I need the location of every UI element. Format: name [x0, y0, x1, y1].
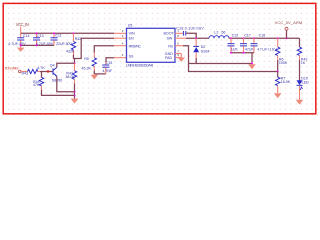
- svg-text:BOOT: BOOT: [164, 31, 175, 35]
- wire R42 to EN: [74, 38, 115, 58]
- capacitor C17: [240, 33, 254, 52]
- ground (output caps / D2): [248, 64, 256, 69]
- wire SS to C15: [106, 58, 114, 62]
- pin stub EN pin 3: [114, 34, 127, 38]
- capacitor C12: [228, 33, 239, 52]
- pin stub SW pin 8: [175, 34, 186, 38]
- resistor R41: [65, 63, 76, 83]
- capacitor C11: [51, 33, 73, 46]
- svg-text:L2: L2: [214, 30, 218, 34]
- ground (bottom left): [71, 99, 79, 104]
- wire RT/SYNC to R5: [94, 46, 114, 53]
- node SW junction: [195, 37, 197, 39]
- junction dots output bus: [230, 37, 287, 39]
- svg-text:C14: C14: [23, 34, 30, 38]
- wire R5 bottom / C15 bottom: [94, 71, 106, 74]
- LED D10: [297, 76, 309, 90]
- transistor Q4: [50, 64, 62, 83]
- resistor R42 (LED series 1K): [297, 38, 307, 65]
- pin stub BOOT pin 1: [175, 29, 183, 33]
- resistor R44 (base pulldown): [33, 72, 44, 90]
- svg-text:16.5K: 16.5K: [281, 80, 291, 84]
- svg-text:POW_ARM: POW_ARM: [5, 67, 19, 71]
- wire R43 to Q4 base: [40, 71, 53, 73]
- node ground bus junction: [251, 63, 253, 65]
- pin stub SS pin 6: [114, 53, 127, 58]
- svg-text:RT/SYNC: RT/SYNC: [129, 44, 142, 48]
- svg-text:SS34: SS34: [201, 50, 210, 54]
- net label VCC_5V_ARM: [275, 20, 303, 25]
- wire input bus VIN: [21, 32, 114, 34]
- resistor R5: [82, 53, 97, 71]
- wire FB to divider: [183, 46, 278, 72]
- svg-text:47UF: 47UF: [245, 48, 255, 52]
- wire R44 to ground junction: [42, 90, 75, 96]
- ground (R7): [274, 93, 282, 98]
- capacitor C13: [33, 33, 54, 46]
- capacitor C16: [251, 33, 278, 52]
- resistor R42 (EN pull-up): [66, 33, 81, 54]
- svg-text:C11: C11: [55, 34, 61, 38]
- wire VCC_IN stem: [20, 27, 22, 34]
- svg-text:PAD: PAD: [165, 56, 173, 60]
- wire R42 to LED: [299, 60, 301, 80]
- svg-text:C16: C16: [259, 33, 266, 37]
- wire LED to ground: [299, 86, 301, 100]
- wire BOOT to SW node: [186, 33, 196, 38]
- node R44 junction: [74, 94, 76, 96]
- port circle VCC_5V_ARM: [285, 27, 288, 30]
- wire Q4 emitter to ground: [57, 76, 75, 91]
- net label POW_ARM: [5, 67, 19, 71]
- capacitor C18 (bootstrap): [176, 27, 204, 36]
- wire VCC_5V_ARM stem: [286, 30, 288, 38]
- junction dots caps ground bus: [230, 52, 244, 54]
- svg-text:47UF/16V: 47UF/16V: [257, 48, 277, 52]
- junction dots input bus: [20, 32, 75, 46]
- svg-text:Q4: Q4: [50, 64, 55, 68]
- svg-text:U5: U5: [128, 24, 133, 28]
- svg-text:VCC_IN: VCC_IN: [16, 22, 29, 27]
- net label VCC_IN: [16, 22, 29, 27]
- svg-text:EN: EN: [129, 36, 134, 40]
- svg-text:C18 0.1UF/16V: C18 0.1UF/16V: [176, 27, 204, 31]
- svg-text:4.7NF: 4.7NF: [102, 69, 113, 73]
- ground (input caps): [17, 45, 25, 51]
- wire middle ground bus: [189, 63, 253, 65]
- resistor R43: [21, 66, 45, 76]
- svg-text:C17: C17: [244, 33, 251, 37]
- svg-text:LED: LED: [302, 80, 309, 84]
- node base junction: [47, 70, 49, 72]
- node FB divider junction: [277, 71, 279, 73]
- wire output caps ground bus: [231, 52, 254, 54]
- svg-text:SS: SS: [129, 54, 134, 58]
- svg-text:38.0K: 38.0K: [65, 75, 75, 79]
- resistor R7 (FB divider bottom): [276, 72, 291, 94]
- wire SW to inductor: [186, 37, 209, 39]
- svg-text:C15: C15: [106, 61, 113, 65]
- svg-text:R43: R43: [22, 72, 29, 76]
- svg-text:56: 56: [221, 30, 225, 34]
- wire input ground bus: [21, 44, 54, 46]
- svg-text:VCC_5V_ARM: VCC_5V_ARM: [275, 20, 303, 25]
- svg-text:SW: SW: [167, 36, 173, 40]
- wire EN node down to R41: [74, 59, 76, 64]
- capacitor C15: [102, 61, 113, 74]
- node EN/R41 junction: [74, 62, 76, 64]
- inductor L2: [209, 30, 229, 38]
- svg-text:47K: 47K: [33, 83, 40, 87]
- svg-text:VIN: VIN: [129, 31, 135, 35]
- page border frame: [3, 3, 316, 113]
- svg-text:LMR14030SDDAR: LMR14030SDDAR: [126, 64, 154, 68]
- svg-text:FB: FB: [168, 44, 173, 48]
- op-amp U5 body (regulator LMR14030): [126, 24, 175, 68]
- resistor R6 (FB divider top): [276, 38, 288, 65]
- svg-text:45.3K: 45.3K: [82, 66, 92, 70]
- wire Q4 collector to EN node: [57, 63, 75, 67]
- svg-text:R5: R5: [84, 57, 89, 61]
- svg-text:1UF: 1UF: [231, 48, 239, 52]
- node emitter junction: [74, 91, 76, 93]
- svg-text:432K: 432K: [66, 50, 75, 54]
- wire D2 anode to ground bus: [195, 58, 197, 64]
- svg-text:22UF-50V: 22UF-50V: [56, 42, 72, 46]
- wire caps ground bus down: [251, 53, 253, 64]
- svg-text:R42: R42: [75, 37, 82, 41]
- svg-text:4.7K: 4.7K: [37, 66, 45, 70]
- background grid: [0, 0, 320, 118]
- svg-text:100K: 100K: [279, 61, 288, 65]
- pin stub GND pin 7: [175, 49, 181, 53]
- svg-text:1K: 1K: [301, 61, 306, 65]
- ground (R5/C15): [91, 74, 99, 80]
- port circle POW_ARM: [18, 70, 21, 73]
- pin stub PAD pin 9: [175, 53, 181, 57]
- ground (LED): [296, 100, 304, 105]
- capacitor C14: [8, 33, 29, 46]
- wire R41 to ground: [74, 84, 76, 99]
- ground (IC GND/PAD): [178, 54, 186, 62]
- svg-text:C12: C12: [232, 33, 239, 37]
- pin stub RT/SYNC pin 4: [114, 42, 127, 46]
- pin stub VIN pin 2: [114, 29, 127, 33]
- wire output bus: [229, 37, 300, 39]
- svg-text:C13: C13: [37, 34, 44, 38]
- pin stub FB pin 5: [175, 42, 183, 46]
- wire R6 bottom to FB node: [277, 60, 279, 72]
- diode D2 (SS34 catch diode): [193, 38, 209, 58]
